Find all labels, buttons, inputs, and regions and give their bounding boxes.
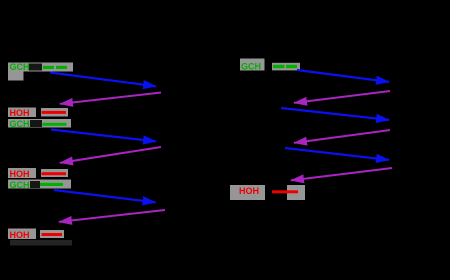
label red3 dash box: [40, 230, 64, 238]
label green1 black word: [29, 64, 42, 71]
arrow purple3 right: [291, 168, 392, 180]
label red3 red dash: [42, 233, 63, 236]
arrow blue2 left: [51, 130, 156, 142]
svg-text:HOH: HOH: [239, 186, 259, 196]
arrow purple2 right: [294, 130, 390, 143]
label red2 dash box: [41, 169, 68, 177]
label green2 green dash: [43, 123, 67, 126]
label green1 highlight box: [8, 63, 73, 81]
label green-R highlight box: [240, 59, 265, 71]
arrow purple1 right: [294, 91, 390, 103]
label green3 green dash: [40, 183, 63, 186]
label green-R dash box: [272, 63, 300, 71]
label red-R highlight box B: [287, 185, 305, 200]
svg-text:GCH: GCH: [10, 62, 30, 72]
label green3 black word: [30, 181, 40, 188]
label red1 highlight box: [8, 108, 36, 118]
label red1 red dash: [42, 111, 67, 114]
svg-text:HOH: HOH: [10, 169, 30, 179]
svg-text:HOH: HOH: [10, 230, 30, 240]
label red-R red dash: [272, 190, 298, 193]
arrow blue3 right: [285, 148, 389, 160]
label red3 highlight box: [8, 229, 36, 240]
label red3 faint second line: [10, 240, 72, 246]
arrow purple3 left: [59, 210, 165, 222]
svg-text:GCH: GCH: [10, 180, 30, 190]
svg-text:HOH: HOH: [10, 108, 30, 118]
svg-text:GCH: GCH: [10, 119, 30, 129]
arrow blue3 left: [54, 190, 156, 202]
label red-R highlight box A: [230, 185, 265, 200]
arrow blue2 right: [281, 108, 389, 120]
label green2 black word: [30, 120, 42, 127]
arrow purple1 left: [60, 93, 161, 104]
label green2 highlight box: [8, 119, 71, 128]
svg-text:GCH: GCH: [241, 62, 261, 72]
label green1 green dashes: [43, 66, 54, 69]
arrow blue1 right: [297, 70, 389, 82]
arrow purple2 left: [60, 147, 161, 163]
label red2 red dash: [42, 172, 67, 175]
label red1 dash box: [41, 108, 68, 117]
label green3 highlight box: [8, 180, 71, 189]
label green-R green dashes: [273, 65, 285, 68]
arrow blue1 left: [50, 73, 156, 87]
label red2 highlight box: [8, 168, 36, 178]
